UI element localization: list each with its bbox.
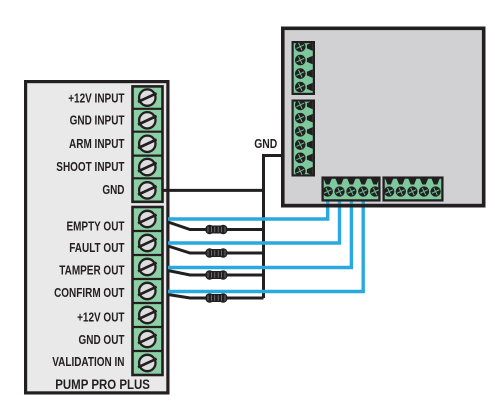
svg-text:GND OUT: GND OUT <box>78 334 124 347</box>
svg-text:+12V OUT: +12V OUT <box>77 312 125 325</box>
svg-text:ARM INPUT: ARM INPUT <box>69 138 125 151</box>
terminal screw GND <box>138 182 157 198</box>
terminal screw SHOOT INPUT <box>138 159 157 175</box>
terminal strip TB2 (outputs) <box>133 207 163 375</box>
svg-text:EMPTY OUT: EMPTY OUT <box>66 220 124 233</box>
svg-text:GND INPUT: GND INPUT <box>70 115 125 128</box>
svg-text:FAULT OUT: FAULT OUT <box>69 242 124 255</box>
svg-text:SHOOT INPUT: SHOOT INPUT <box>56 161 124 174</box>
alarm panel box U2 <box>283 28 484 205</box>
panel U2 bottom border over wires <box>285 204 484 208</box>
svg-text:VALIDATION IN: VALIDATION IN <box>52 356 124 369</box>
wire EMPTY OUT resistor branch <box>168 222 264 230</box>
svg-text:CONFIRM OUT: CONFIRM OUT <box>54 287 124 300</box>
svg-text:TAMPER OUT: TAMPER OUT <box>59 264 124 277</box>
resistor R2 inline on FAULT OUT wire <box>205 248 227 257</box>
svg-text:PUMP PRO PLUS: PUMP PRO PLUS <box>55 377 150 392</box>
resistor R4 inline on CONFIRM OUT wire <box>205 293 227 302</box>
resistor R3 inline on TAMPER OUT wire <box>205 270 227 279</box>
wire EMPTY OUT blue signal wire <box>168 196 328 219</box>
wire FAULT OUT blue signal wire <box>168 196 340 243</box>
terminal screw GND INPUT <box>138 112 157 128</box>
terminal screw FAULT OUT <box>138 235 157 251</box>
panel terminal block J3 (5-way horizontal) <box>323 178 381 201</box>
terminal screw TAMPER OUT <box>138 259 157 275</box>
wire GND from GND terminal to bus <box>160 189 264 192</box>
terminal screw CONFIRM OUT <box>138 283 157 299</box>
wire FAULT OUT resistor branch <box>168 246 264 253</box>
panel terminal block J1 (4-way vertical) <box>293 41 314 94</box>
wire TAMPER OUT resistor branch <box>168 271 264 276</box>
svg-text:GND: GND <box>254 137 277 151</box>
wire CONFIRM OUT blue signal wire <box>168 196 363 292</box>
terminal strip TB1 (inputs) <box>133 86 163 201</box>
terminal screw GND OUT <box>138 331 157 347</box>
terminal screw +12V INPUT <box>138 89 157 105</box>
panel terminal block J4 (5-way horizontal) <box>384 178 443 201</box>
terminal screw VALIDATION IN <box>138 355 157 371</box>
resistor R1 inline on EMPTY OUT wire <box>205 225 227 234</box>
wire GND bus to panel edge <box>264 156 285 299</box>
terminal screw ARM INPUT <box>138 136 157 152</box>
panel terminal block J2 (6-way vertical) <box>293 100 314 177</box>
Pump Pro Plus unit box U1 <box>26 82 168 393</box>
terminal screw EMPTY OUT <box>138 211 157 227</box>
svg-text:GND: GND <box>102 184 124 197</box>
svg-text:+12V INPUT: +12V INPUT <box>68 93 124 106</box>
wire CONFIRM OUT resistor branch <box>168 295 264 299</box>
terminal screw +12V OUT <box>138 307 157 323</box>
wire TAMPER OUT blue signal wire <box>168 196 351 268</box>
